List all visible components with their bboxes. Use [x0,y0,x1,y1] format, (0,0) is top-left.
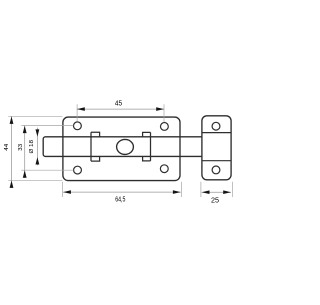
dim 44 bottom arrow [10,181,14,188]
keeper channel top line [202,132,231,134]
svg-text:45: 45 [115,98,122,107]
dim 44 line [11,116,13,187]
dim Ø18 top arrow [36,129,40,136]
right guide staple [143,132,151,161]
svg-text:Ø 18: Ø 18 [29,140,35,154]
dim 33 bottom arrow [23,170,27,177]
bolt rod (tail end + shaft to keeper) [43,137,202,157]
svg-text:33: 33 [18,144,24,151]
dim 33 extension lines [21,126,73,171]
keeper plate [202,116,231,180]
dim 33 line [24,126,26,178]
screw hole top-right [161,123,169,131]
svg-text:25: 25 [211,196,219,205]
knob [117,139,134,154]
keeper hole top [212,122,220,130]
svg-text:44: 44 [4,144,10,151]
left guide staple [91,132,100,161]
keeper channel bottom line [202,160,231,162]
dim 45 line [77,108,164,110]
screw hole bottom-left [74,166,82,174]
dim 25 left arrow [202,190,210,194]
keeper hole bottom [212,166,220,174]
dim 44 top arrow [10,117,14,124]
dim 64,5 extension lines [63,182,182,197]
dim 64,5 left arrow [63,190,71,194]
dim 45 extension lines [77,104,164,122]
screw hole top-left [74,122,82,130]
dim 45 left arrow [77,107,85,111]
dim 33 top arrow [23,126,27,133]
main plate [63,117,180,181]
dim 25 line [202,191,231,193]
screw hole bottom-right [160,165,168,173]
dim 25 extension lines [201,182,233,197]
dim 44 extension lines [8,116,62,180]
dim Ø18 line [36,128,38,166]
dim 45 right arrow [156,107,164,111]
dim 25 right arrow [223,190,231,194]
dim 64,5 right arrow [173,190,181,194]
dim 64,5 line [63,191,181,193]
svg-text:64,5: 64,5 [115,197,125,204]
dim Ø18 bottom arrow [36,157,40,164]
